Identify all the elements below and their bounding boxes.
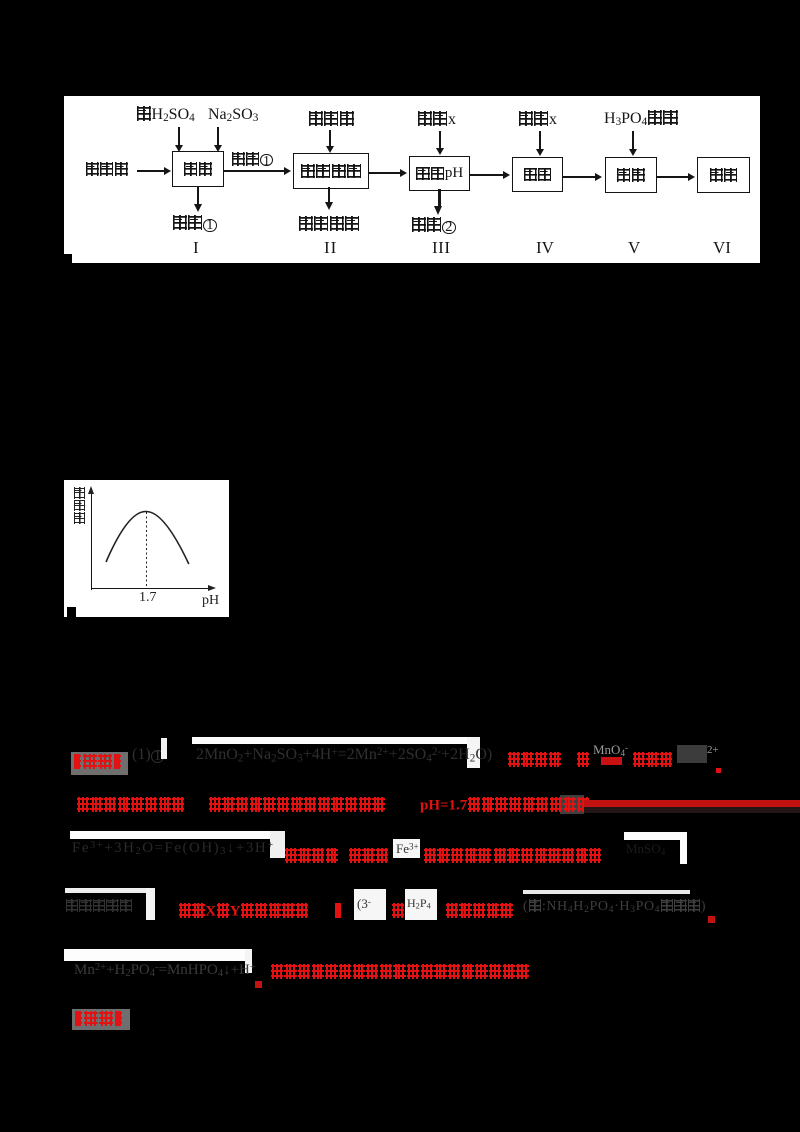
line4 red text F	[445, 903, 513, 920]
axis label pH	[202, 593, 219, 609]
red seg D	[632, 752, 673, 769]
numeral VI	[713, 238, 731, 258]
line4 dark text G	[523, 899, 706, 915]
down arrow into 调节pH	[439, 131, 441, 149]
label 滤渣②	[411, 217, 456, 235]
line4 red text B	[178, 903, 309, 920]
down arrow into 酸溶	[632, 131, 634, 150]
numeral V	[628, 238, 640, 258]
line2 red seg2	[208, 797, 385, 814]
graph white panel	[64, 480, 229, 617]
box VI 产品	[697, 157, 750, 193]
dotted line at pH 1.7	[146, 512, 148, 588]
down arrow 萃取分液 to 萃取剂相	[328, 187, 330, 203]
arrow 软锰矿 to 浸锰	[137, 170, 165, 172]
panel2 bottom-left black notch	[67, 607, 76, 617]
line2 red seg3	[420, 797, 590, 814]
arrow 调节pH to 沉锰	[470, 174, 504, 176]
extraction curve	[64, 480, 229, 617]
label 滤渣①	[172, 215, 217, 233]
down arrow 调节pH to 滤渣②	[438, 189, 441, 207]
line3 red seg3	[423, 848, 491, 865]
line3 equation white band	[70, 831, 284, 839]
reagent label 萃取剂	[308, 111, 355, 129]
【答案】 gray tag	[72, 1009, 130, 1030]
line4 white top strip left	[65, 888, 155, 893]
box IV 沉锰	[512, 157, 563, 192]
red block C	[601, 757, 622, 765]
label 萃取剂相	[298, 216, 360, 234]
line4 red comma H	[708, 916, 715, 923]
reagent label 试剂x (1)	[417, 111, 456, 129]
line4 dark text A	[65, 899, 133, 915]
line4 white strip above G	[523, 890, 690, 894]
graph x-axis	[91, 588, 209, 589]
arrow 沉锰 to 酸溶	[563, 176, 596, 178]
flow diagram white panel	[64, 96, 760, 263]
red comma F	[715, 758, 721, 774]
line5 red text	[270, 964, 529, 981]
line2 red rule	[584, 800, 800, 808]
down arrow into 浸锰 from Na2SO3	[217, 127, 219, 146]
graph y-axis	[91, 490, 92, 590]
line4 red char D	[391, 903, 405, 920]
arrow 萃取分液 to 调节pH	[369, 172, 401, 174]
down arrow into 浸锰 from 稀H2SO4	[178, 127, 180, 146]
down arrow into 沉锰	[539, 131, 541, 150]
line3 dark text in L	[626, 841, 665, 857]
equation 1 right white patch	[467, 737, 480, 768]
(1)① dark	[132, 746, 164, 764]
label 滤液①	[231, 152, 273, 169]
numeral IV	[536, 238, 554, 258]
panel1 bottom-left black notch	[64, 254, 72, 264]
white strip	[161, 738, 167, 759]
line5 white band	[64, 949, 252, 961]
line3 white L right bar	[680, 832, 687, 864]
dark box E	[677, 745, 707, 763]
reagent label Na2SO3	[208, 106, 258, 124]
reagent label 稀H2SO4	[136, 106, 195, 124]
box V 酸溶	[605, 157, 657, 193]
equation 1 white band	[192, 737, 476, 744]
line3 red seg2	[348, 848, 389, 865]
box III 调节pH	[409, 156, 470, 191]
line4 white vbar	[146, 888, 155, 920]
line3 white L top strip	[624, 832, 687, 840]
line3 red seg1	[284, 848, 339, 865]
numeral II	[324, 238, 337, 258]
feed label 软锰矿	[85, 162, 129, 179]
down arrow into 萃取分液	[329, 130, 331, 147]
arrow 酸溶 to 产品	[657, 176, 689, 178]
box II 萃取分液	[293, 153, 369, 189]
line4 red paren	[334, 903, 342, 920]
equation 1 text (dark)	[196, 746, 492, 764]
line2 gray box under last chars	[560, 795, 584, 814]
tick label 1.7	[139, 590, 157, 606]
line5 red comma	[255, 981, 262, 988]
gray Mn2+ raised	[593, 742, 628, 758]
box I 浸锰	[172, 151, 224, 187]
line3 dark equation text	[72, 840, 275, 857]
numeral I	[193, 238, 199, 258]
reagent label 试剂x (2)	[518, 111, 557, 129]
line5 white right bar	[245, 949, 252, 973]
red note line1 seg A	[507, 752, 562, 769]
reagent label H3PO4溶液	[604, 110, 678, 128]
【解析】 gray tag	[71, 752, 128, 775]
red char B	[576, 752, 590, 769]
line3 red seg4	[493, 848, 602, 865]
line2 red seg1	[76, 797, 185, 814]
line3 white box Fe3+	[393, 839, 420, 858]
down arrow 浸锰 to 滤渣①	[197, 186, 199, 205]
y-axis label 萃取率 (vertical)	[74, 486, 85, 525]
line4 white box C	[354, 889, 386, 920]
arrow 浸锰 to 萃取分液	[224, 170, 285, 172]
line5 dark equation	[74, 962, 256, 979]
line4 white box E	[405, 889, 437, 920]
numeral III	[432, 238, 450, 258]
line3 equation right white patch	[270, 831, 285, 858]
